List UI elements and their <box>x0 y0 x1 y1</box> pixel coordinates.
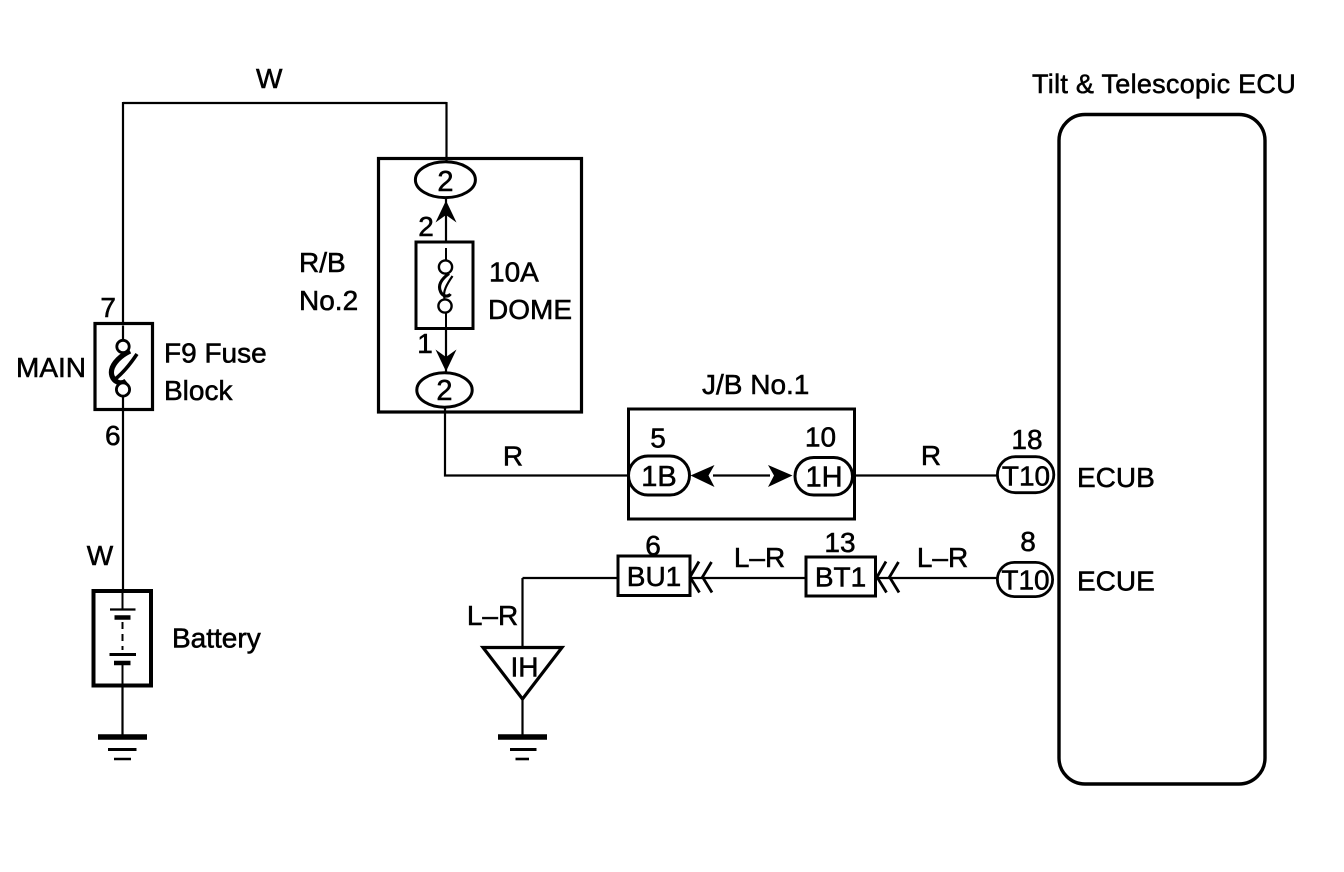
svg-text:1H: 1H <box>805 462 842 494</box>
svg-text:BU1: BU1 <box>627 561 681 592</box>
svg-text:BT1: BT1 <box>815 562 866 593</box>
svg-text:L–R: L–R <box>917 542 968 573</box>
svg-text:J/B No.1: J/B No.1 <box>702 369 809 400</box>
svg-text:8: 8 <box>1020 526 1036 557</box>
svg-text:2: 2 <box>436 375 452 407</box>
svg-text:1: 1 <box>417 328 433 359</box>
svg-text:L–R: L–R <box>734 542 785 573</box>
svg-text:1B: 1B <box>641 461 676 493</box>
svg-text:W: W <box>256 63 283 94</box>
svg-text:Tilt & Telescopic ECU: Tilt & Telescopic ECU <box>1032 69 1296 99</box>
svg-text:5: 5 <box>650 423 666 454</box>
svg-text:MAIN: MAIN <box>16 352 86 383</box>
svg-text:R: R <box>921 440 941 471</box>
svg-text:2: 2 <box>437 166 453 198</box>
svg-text:T10: T10 <box>1001 565 1049 596</box>
svg-text:ECUB: ECUB <box>1077 462 1155 493</box>
svg-text:R/B: R/B <box>299 247 346 278</box>
svg-text:W: W <box>87 540 114 571</box>
svg-text:No.2: No.2 <box>299 285 358 316</box>
svg-text:18: 18 <box>1011 424 1042 455</box>
svg-text:R: R <box>503 441 523 472</box>
svg-text:L–R: L–R <box>467 600 518 631</box>
svg-text:6: 6 <box>105 420 121 451</box>
svg-text:T10: T10 <box>1002 461 1050 492</box>
svg-text:DOME: DOME <box>488 294 572 325</box>
svg-text:10: 10 <box>805 422 836 453</box>
svg-text:6: 6 <box>645 530 661 561</box>
svg-text:IH: IH <box>511 652 539 683</box>
svg-text:F9 Fuse: F9 Fuse <box>164 338 267 369</box>
svg-text:ECUE: ECUE <box>1077 566 1155 597</box>
svg-text:2: 2 <box>418 211 434 242</box>
svg-text:Battery: Battery <box>172 623 261 654</box>
svg-text:7: 7 <box>100 292 116 323</box>
svg-text:13: 13 <box>824 527 855 558</box>
svg-text:Block: Block <box>164 375 233 406</box>
svg-text:10A: 10A <box>489 257 539 288</box>
